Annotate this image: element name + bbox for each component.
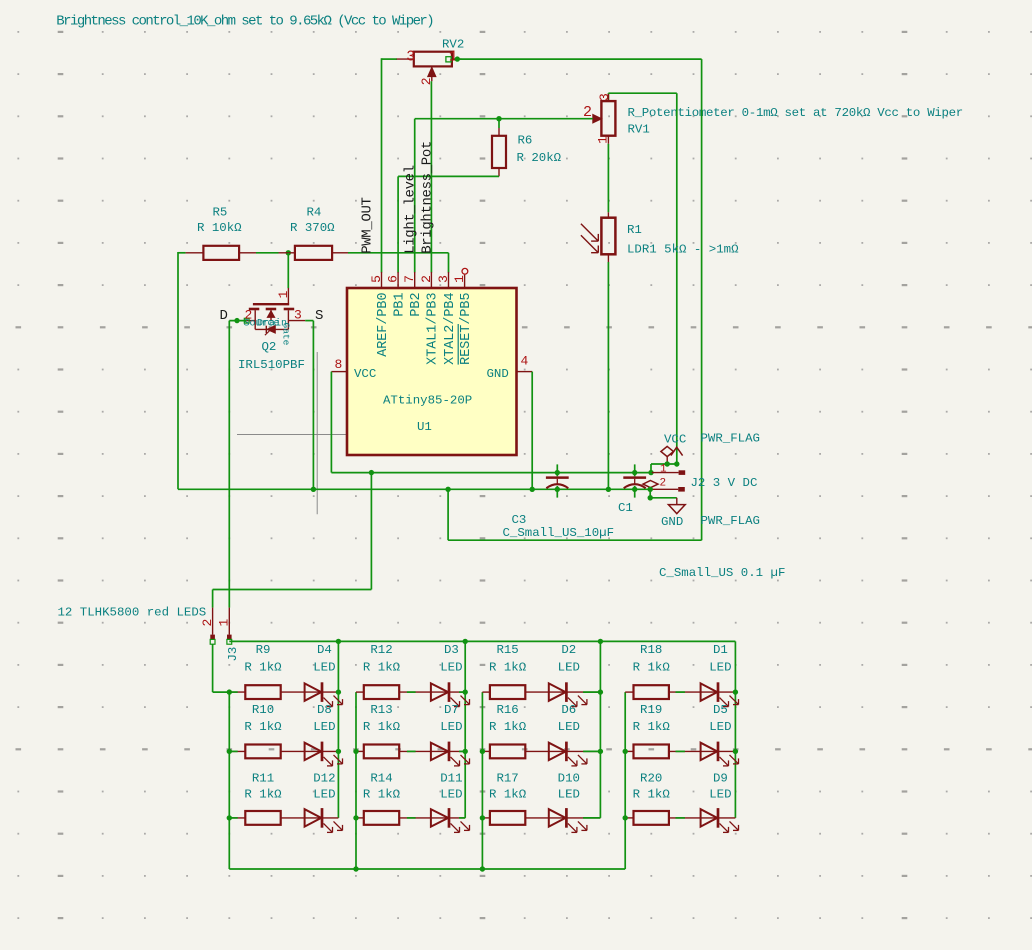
svg-text:R13: R13	[370, 703, 392, 717]
svg-text:D3: D3	[444, 643, 459, 657]
junction C1 bottom at GND rail	[632, 487, 637, 492]
resistor R20	[634, 811, 669, 825]
resistor R16	[490, 745, 525, 759]
junction anode rail row2 group3	[480, 749, 485, 754]
wire R9/D4 row	[229, 691, 338, 693]
resistor R13	[364, 745, 399, 759]
svg-text:R 1kΩ: R 1kΩ	[633, 661, 671, 675]
label PWR_FLAG (top)	[701, 432, 761, 446]
potentiometer RV1	[593, 94, 616, 144]
label D5	[713, 703, 728, 717]
value LED (D9)	[709, 788, 731, 802]
label D11	[440, 772, 462, 786]
pin name PB1 (U1)	[392, 293, 407, 317]
resistor R12	[364, 685, 399, 699]
net label PWM_OUT	[359, 197, 375, 253]
wire R12/D3 row	[356, 691, 465, 693]
svg-text:J3: J3	[226, 647, 240, 662]
junction at Q2 drain wire	[234, 318, 239, 323]
junction cathode rail row2 group3	[598, 749, 603, 754]
connector J2 pin 2	[652, 487, 685, 492]
label RV2	[442, 38, 464, 52]
label VCC	[664, 433, 686, 447]
wire R13/D7 row	[356, 750, 465, 752]
label R20	[640, 772, 662, 786]
label U1	[417, 420, 432, 434]
svg-text:PB2: PB2	[409, 293, 424, 317]
wire: VCC rail down-left to J3 pin2	[213, 473, 372, 608]
resistor R4	[279, 246, 349, 260]
wire: J3 pin1 LED top rail	[229, 640, 735, 642]
resistor R10	[245, 745, 280, 759]
svg-text:PB1: PB1	[392, 293, 407, 317]
svg-text:LED: LED	[440, 661, 462, 675]
junction anode rail row3 group3	[480, 815, 485, 820]
svg-text:12 TLHK5800 red LEDS: 12 TLHK5800 red LEDS	[58, 606, 207, 620]
pin number 3 (RV1)	[597, 93, 612, 101]
label ATtiny85-20P	[383, 394, 472, 408]
pin number 2 (U1)	[419, 275, 434, 283]
svg-text:D10: D10	[558, 772, 580, 786]
label PWR_FLAG (bottom)	[701, 514, 761, 528]
wire R20/D9 row	[625, 817, 735, 819]
resistor R14	[364, 811, 399, 825]
junction cathode rail row2 group4	[733, 749, 738, 754]
value R 20kΩ (R6)	[517, 134, 562, 166]
connector J2 pin 1	[652, 470, 685, 475]
text note: RV1 description	[628, 106, 963, 120]
junction anode rail row2 group2	[353, 749, 358, 754]
wire: LED group 2 anode rail	[355, 692, 357, 869]
svg-text:R9: R9	[256, 643, 271, 657]
junction R1 at GND rail	[606, 487, 611, 492]
svg-text:R1: R1	[627, 223, 642, 237]
wire: gate node down to Q2	[287, 253, 289, 288]
pin number 3 (U1)	[436, 275, 451, 283]
value R 1kΩ (R17)	[489, 788, 527, 802]
svg-text:R10: R10	[252, 703, 274, 717]
value R 1kΩ (R10)	[244, 720, 282, 734]
pin number 3 (RV2)	[406, 49, 415, 66]
wire: GND rail to GND symbol	[650, 489, 677, 498]
resistor R15	[490, 685, 525, 699]
label D10	[558, 772, 580, 786]
wire: RV1 pin3 up and right to VCC column	[608, 93, 676, 464]
label R11	[252, 772, 274, 786]
svg-text:3: 3	[436, 275, 451, 283]
value LED (D1)	[709, 661, 731, 675]
svg-text:R 1kΩ: R 1kΩ	[244, 788, 282, 802]
value LED (D3)	[440, 661, 462, 675]
svg-text:LED: LED	[558, 720, 580, 734]
svg-text:AREF/PB0: AREF/PB0	[376, 293, 391, 357]
svg-text:LED: LED	[440, 788, 462, 802]
value R 1kΩ (R15)	[489, 661, 527, 675]
svg-text:LED: LED	[709, 720, 731, 734]
pin name PB2 (U1)	[409, 293, 424, 317]
svg-text:R_Potentiometer 0-1mΩ set at 7: R_Potentiometer 0-1mΩ set at 720kΩ Vcc t…	[628, 106, 963, 120]
svg-text:5: 5	[369, 275, 384, 283]
svg-text:PWR_FLAG: PWR_FLAG	[701, 432, 761, 446]
wire: RV1 wiper to Light_level column	[415, 119, 593, 273]
wire: LED group 4 anode rail	[624, 692, 626, 869]
svg-text:R 1kΩ: R 1kΩ	[363, 720, 401, 734]
svg-text:D1: D1	[713, 643, 728, 657]
label J3	[226, 647, 240, 662]
svg-text:PWM_OUT: PWM_OUT	[359, 197, 375, 253]
junction top rail / cathode rail group 3	[598, 639, 603, 644]
svg-text:D4: D4	[317, 643, 332, 657]
wire: LED group 1 anode rail	[228, 692, 230, 869]
svg-text:LED: LED	[558, 788, 580, 802]
wire: bottom VCC loop	[448, 489, 701, 540]
value R 1kΩ (R16)	[489, 720, 527, 734]
svg-text:C_Small_US_10µF: C_Small_US_10µF	[503, 526, 615, 540]
svg-text:VCC: VCC	[354, 367, 376, 381]
label R18	[640, 643, 662, 657]
capacitor C3	[546, 464, 569, 497]
wire: LED group 4 cathode rail	[734, 641, 736, 818]
wire R17/D10 row	[482, 817, 600, 819]
resistor R6	[492, 119, 506, 177]
label R9	[256, 643, 271, 657]
svg-text:U1: U1	[417, 420, 432, 434]
svg-text:LDR1 5kΩ - >1mΩ: LDR1 5kΩ - >1mΩ	[627, 243, 739, 257]
svg-text:R12: R12	[370, 643, 392, 657]
pin number 2 (J2)	[660, 478, 667, 490]
value LED (D11)	[440, 788, 462, 802]
junction at R6 top	[496, 116, 501, 121]
pin name D (Q2 drain)	[220, 308, 228, 324]
svg-text:7: 7	[402, 275, 417, 283]
ground symbol	[668, 498, 685, 514]
label D2	[561, 643, 576, 657]
svg-text:R5: R5	[213, 206, 228, 220]
svg-text:2: 2	[660, 478, 667, 490]
value R 1kΩ (R19)	[633, 720, 671, 734]
svg-text:VCC: VCC	[664, 433, 686, 447]
svg-text:D7: D7	[444, 703, 459, 717]
value R 1kΩ (R20)	[633, 788, 671, 802]
wire: LED group 3 cathode rail	[599, 641, 601, 818]
power flag PWR_FLAG (GND)	[643, 481, 658, 488]
pin number 2 (RV2)	[419, 77, 434, 85]
value R 1kΩ (R14)	[363, 788, 401, 802]
label R12	[370, 643, 392, 657]
svg-text:1: 1	[217, 619, 232, 627]
graphic line (gray, vertical near Q2)	[316, 352, 318, 514]
connector J3 pin 2	[210, 608, 215, 645]
svg-text:RV1: RV1	[628, 122, 650, 136]
svg-text:J2 3 V DC: J2 3 V DC	[691, 476, 758, 490]
LED D3	[431, 682, 470, 706]
svg-text:1: 1	[660, 464, 667, 476]
label R16	[496, 703, 518, 717]
wire: R5 to R4 node	[256, 252, 279, 254]
svg-text:8: 8	[335, 357, 343, 372]
svg-text:R4: R4	[307, 206, 322, 220]
junction VCC symbol node	[674, 461, 679, 466]
connector J3 pin 1	[227, 608, 232, 645]
label D12	[313, 772, 335, 786]
junction C3 bottom at GND rail	[555, 487, 560, 492]
LED D7	[431, 742, 470, 766]
RESET overline (U1 pin1)	[457, 324, 459, 365]
svg-text:C_Small_US 0.1 µF: C_Small_US 0.1 µF	[659, 566, 785, 580]
LED D11	[431, 808, 470, 832]
svg-text:D2: D2	[561, 643, 576, 657]
svg-text:Gate: Gate	[281, 323, 292, 346]
label D6	[561, 703, 576, 717]
power symbol VCC (arrow)	[671, 447, 683, 455]
svg-text:R15: R15	[496, 643, 518, 657]
wire R16/D6 row	[482, 750, 600, 752]
LED D1	[701, 682, 739, 706]
svg-text:R 1kΩ: R 1kΩ	[363, 661, 401, 675]
resistor R11	[245, 811, 280, 825]
junction anode rail row3 group2	[353, 815, 358, 820]
pin 8 VCC stub (U1)	[331, 357, 376, 381]
svg-text:Brightness control_10K_ohm set: Brightness control_10K_ohm set to 9.65kΩ…	[56, 14, 433, 30]
junction top rail / cathode rail group 1	[336, 639, 341, 644]
svg-text:D8: D8	[317, 703, 332, 717]
wire: VCC rail up to J2 pin1 node	[651, 464, 677, 473]
pin number 2 (RV1)	[583, 104, 592, 121]
U1 top pin stubs	[382, 268, 468, 288]
svg-text:R 20kΩ: R 20kΩ	[517, 151, 562, 165]
wire: LED group 1 cathode rail	[337, 641, 339, 818]
pin number 1 (J2)	[660, 464, 667, 476]
svg-text:6: 6	[386, 275, 401, 283]
wire: Q2 drain to J3 pin1	[229, 321, 246, 608]
value R 1kΩ (R12)	[363, 661, 401, 675]
wire: RV1 pin1 down to LDR R1	[607, 144, 609, 213]
svg-text:R 1kΩ: R 1kΩ	[633, 788, 671, 802]
LED D4	[305, 682, 343, 706]
transistor Q2 IRL510PBF	[244, 288, 305, 335]
label J2 3 V DC	[691, 476, 758, 490]
wire R10/D8 row	[229, 750, 338, 752]
junction anode rail row3 group4	[623, 815, 628, 820]
pin name XTAL2/PB4 (U1)	[443, 293, 458, 365]
svg-text:PWR_FLAG: PWR_FLAG	[701, 514, 761, 528]
pin number 2 (J3)	[200, 619, 215, 627]
svg-text:Brightness_Pot: Brightness_Pot	[419, 141, 435, 254]
label GND	[661, 515, 683, 529]
text note: C1 value note	[659, 566, 785, 580]
text note: LED count	[58, 606, 207, 620]
wire R19/D5 row	[625, 750, 735, 752]
pin number 6 (U1)	[386, 275, 401, 283]
graphic line (gray, under U1)	[237, 434, 397, 436]
capacitor C1	[623, 464, 646, 497]
junction VCC rail to LED feed	[369, 470, 374, 475]
svg-text:C3: C3	[512, 513, 527, 527]
value LED (D10)	[558, 788, 580, 802]
pin name S (Q2 source)	[315, 308, 323, 324]
svg-text:R 1kΩ: R 1kΩ	[633, 720, 671, 734]
junction GND rail corner to bottom loop	[445, 487, 450, 492]
junction J3 pin1 feed at row1	[227, 689, 232, 694]
svg-text:R17: R17	[496, 772, 518, 786]
wire: U1 pin4 down to GND rail	[531, 372, 533, 490]
junction anode rail row2 group1	[227, 749, 232, 754]
pin number 3 (Q2 source)	[294, 308, 302, 323]
svg-text:LED: LED	[313, 661, 335, 675]
net label Brightness_Pot	[419, 141, 435, 254]
wire: R5 left down to GND rail	[178, 252, 186, 489]
svg-text:LED: LED	[313, 788, 335, 802]
label R1 / LDR1 value	[627, 223, 739, 257]
wire: U1 pin8 VCC down and across (VCC rail)	[331, 372, 651, 473]
power flag PWR_FLAG (VCC)	[661, 446, 674, 464]
svg-text:LED: LED	[313, 720, 335, 734]
svg-text:1: 1	[276, 290, 291, 298]
wire R14/D11 row	[356, 817, 465, 819]
value R 1kΩ (R9)	[244, 661, 282, 675]
svg-text:LED: LED	[558, 661, 580, 675]
value LED (D7)	[440, 720, 462, 734]
svg-text:GND: GND	[661, 515, 683, 529]
wire R11/D12 row	[229, 817, 338, 819]
junction cathode rail row1 group1	[336, 689, 341, 694]
wire: LED group 2 cathode rail	[464, 641, 466, 818]
junction cathode rail row2 group2	[463, 749, 468, 754]
potentiometer RV2	[397, 52, 462, 82]
svg-text:R 10kΩ: R 10kΩ	[197, 221, 242, 235]
resistor R19	[634, 745, 669, 759]
svg-text:1: 1	[452, 275, 467, 283]
svg-text:D12: D12	[313, 772, 335, 786]
resistor R18	[634, 685, 669, 699]
label R_Potentiometer RV1	[628, 122, 650, 136]
pin name RESET/PB5 (U1)	[459, 293, 474, 365]
label R14	[370, 772, 392, 786]
wire: Q2 source down to GND rail	[305, 321, 313, 490]
svg-text:4: 4	[521, 354, 529, 369]
pin names Source/Drain/Gate (overlapping)	[244, 318, 292, 346]
resistor R17	[490, 811, 525, 825]
pin number 1 (RV2)	[449, 49, 458, 66]
svg-text:XTAL2/PB4: XTAL2/PB4	[443, 293, 458, 365]
label D7	[444, 703, 459, 717]
wire: R6 bottom to IC pin6 (PB1)	[398, 176, 499, 272]
svg-text:R 1kΩ: R 1kΩ	[489, 661, 527, 675]
photoresistor R1 (LDR)	[581, 212, 616, 262]
pin number 2 (Q2 drain)	[245, 308, 253, 323]
pin name XTAL1/PB3 (U1)	[426, 293, 441, 365]
svg-text:LED: LED	[709, 661, 731, 675]
junction C1 top at VCC rail	[632, 470, 637, 475]
value R 1kΩ (R11)	[244, 788, 282, 802]
junction U1 GND at rail	[530, 487, 535, 492]
svg-text:D11: D11	[440, 772, 462, 786]
junction cathode rail row1 group2	[463, 689, 468, 694]
svg-text:R14: R14	[370, 772, 392, 786]
svg-text:3: 3	[294, 308, 302, 323]
value LED (D4)	[313, 661, 335, 675]
wire R15/D2 row	[482, 691, 600, 693]
label R19	[640, 703, 662, 717]
value LED (D6)	[558, 720, 580, 734]
wire R18/D1 row	[625, 691, 735, 693]
wire: LED bottom return rail	[229, 868, 625, 870]
value LED (D8)	[313, 720, 335, 734]
text note: sheet title	[56, 14, 433, 30]
svg-text:R20: R20	[640, 772, 662, 786]
pin name AREF/PB0 (U1)	[376, 293, 391, 357]
svg-text:R19: R19	[640, 703, 662, 717]
pin number 1 (U1)	[452, 275, 467, 283]
value LED (D12)	[313, 788, 335, 802]
svg-text:R 1kΩ: R 1kΩ	[489, 788, 527, 802]
wire: LED group 3 anode rail	[481, 692, 483, 869]
wire: J3 pin2 down to LED row1	[213, 644, 230, 692]
junction at RV2 pin1	[455, 56, 460, 61]
pin number 5 (U1)	[369, 275, 384, 283]
label R13	[370, 703, 392, 717]
label R15	[496, 643, 518, 657]
svg-text:2: 2	[200, 619, 215, 627]
label R10	[252, 703, 274, 717]
LED D12	[305, 808, 343, 832]
pin number 1 (RV1)	[595, 136, 610, 144]
svg-text:C1: C1	[618, 501, 633, 515]
LED D2	[549, 682, 587, 706]
svg-text:RESET/PB5: RESET/PB5	[459, 293, 474, 365]
value C_Small_US_10µF (C3)	[503, 513, 615, 540]
svg-text:LED: LED	[440, 720, 462, 734]
wire: GND rail horizontal	[178, 488, 652, 490]
label D8	[317, 703, 332, 717]
value R 10kΩ (R5)	[197, 206, 242, 236]
svg-text:R 1kΩ: R 1kΩ	[244, 661, 282, 675]
svg-text:D6: D6	[561, 703, 576, 717]
wire: RV2 pin3 to IC pin5 (PWM_OUT net)	[382, 58, 398, 272]
value R 1kΩ (R18)	[633, 661, 671, 675]
label D1	[713, 643, 728, 657]
svg-text:1: 1	[595, 136, 610, 144]
pin number 1 (Q2 gate)	[276, 290, 291, 298]
value LED (D5)	[709, 720, 731, 734]
svg-text:GND: GND	[487, 367, 509, 381]
svg-text:R 370Ω: R 370Ω	[290, 221, 335, 235]
svg-text:Q2: Q2	[262, 340, 277, 354]
junction C3 top at VCC rail	[555, 470, 560, 475]
wire: R4 to IC pin3 (XTAL2/PB4)	[348, 253, 449, 273]
junction cathode rail row1 group3	[598, 689, 603, 694]
junction bottom rail group3	[480, 866, 485, 871]
junction anode rail row2 group4	[623, 749, 628, 754]
junction cathode rail row2 group1	[336, 749, 341, 754]
value C1	[618, 501, 633, 515]
svg-text:S: S	[315, 308, 323, 324]
value R 370Ω (R4)	[290, 206, 335, 236]
label D9	[713, 772, 728, 786]
svg-text:R 1kΩ: R 1kΩ	[363, 788, 401, 802]
junction GND stub	[648, 495, 653, 500]
resistor R9	[245, 685, 280, 699]
op-amp U1 ATtiny85-20P (MCU)	[347, 288, 517, 455]
junction cathode rail row1 group4	[733, 689, 738, 694]
junction Q2 source at GND rail	[311, 487, 316, 492]
label Q2 IRL510PBF	[238, 340, 305, 372]
pin number 1 (J3)	[217, 619, 232, 627]
svg-text:LED: LED	[709, 788, 731, 802]
junction PWR_FLAG at VCC node	[665, 461, 670, 466]
svg-text:R11: R11	[252, 772, 274, 786]
wire: R1 bottom to GND rail	[607, 262, 609, 489]
